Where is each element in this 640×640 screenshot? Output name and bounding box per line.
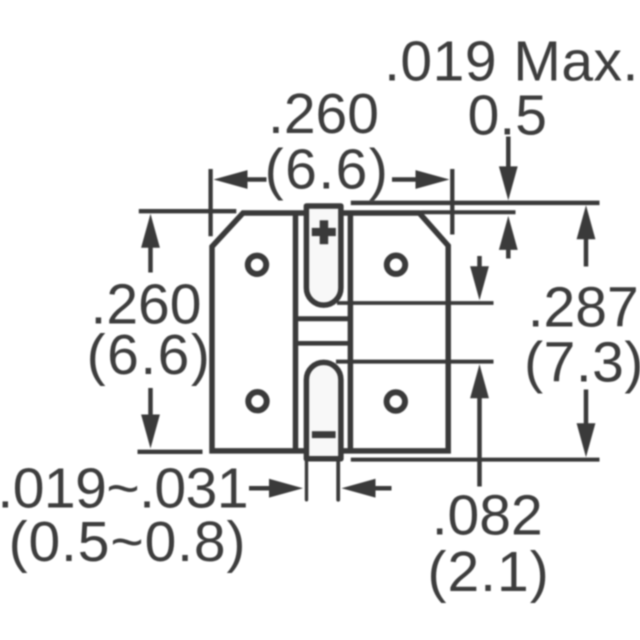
- dimension 0.5 max: up arrow: [499, 216, 518, 250]
- extension line: body bottom extended left (for left .260): [138, 450, 203, 454]
- plus symbol: [312, 228, 336, 236]
- svg-text:.082: .082: [432, 484, 543, 548]
- extension line: terminal top (for 0.5 max and .287): [351, 201, 600, 206]
- svg-text:.260: .260: [268, 82, 379, 146]
- channel right wall: [348, 213, 354, 451]
- svg-text:(2.1): (2.1): [427, 540, 549, 604]
- dimension .287: up arrow: [577, 205, 596, 239]
- channel left wall: [293, 213, 299, 451]
- hole upper-left: [248, 256, 266, 274]
- lead stub right line: [336, 460, 340, 500]
- extension line: minus terminal top (for .082): [336, 360, 494, 364]
- lead stub left line: [305, 460, 308, 500]
- svg-text:(6.6): (6.6): [87, 323, 212, 387]
- dimension 0.5 max: down arrow: [499, 166, 518, 200]
- extension line: body top extended left (for left .260): [139, 209, 237, 213]
- dimension .260 left: up arrow: [141, 214, 160, 248]
- svg-text:0.5: 0.5: [468, 84, 547, 148]
- svg-text:(6.6): (6.6): [265, 138, 390, 202]
- svg-text:(7.3): (7.3): [524, 331, 640, 395]
- dimension .287: down arrow: [577, 423, 596, 457]
- extension line: top dim right vertical: [450, 169, 454, 235]
- negative terminal (bottom, rounded top): [306, 362, 341, 458]
- extension line: body top extended right (for 0.5 max): [421, 210, 516, 214]
- svg-text:(0.5~0.8): (0.5~0.8): [9, 510, 247, 574]
- extension line: seating plane / terminal bottom (for .287): [351, 458, 600, 462]
- channel mid line A: [296, 316, 351, 321]
- dimension .019~.031: left-pointing arrow: [342, 479, 376, 498]
- hole lower-right: [387, 392, 405, 410]
- dimension .260 left: down arrow: [141, 415, 160, 449]
- hole lower-left: [248, 392, 266, 410]
- channel mid line B: [296, 341, 351, 346]
- capacitor body outline (chamfered top corners): [212, 213, 448, 451]
- hole upper-right: [387, 256, 405, 274]
- dimension .019~.031: right-pointing arrow: [269, 479, 303, 498]
- extension line: plus terminal bottom (for .082): [337, 301, 494, 305]
- dimension .260 top: left arrow: [214, 170, 248, 189]
- minus symbol: [312, 431, 336, 438]
- extension line: top dim left vertical: [208, 169, 212, 236]
- dimension .082: down arrow: [470, 266, 489, 300]
- dimension .260 top: right arrow: [416, 170, 450, 189]
- dimension .082: up arrow: [470, 364, 489, 398]
- positive terminal (top, rounded bottom): [306, 206, 341, 305]
